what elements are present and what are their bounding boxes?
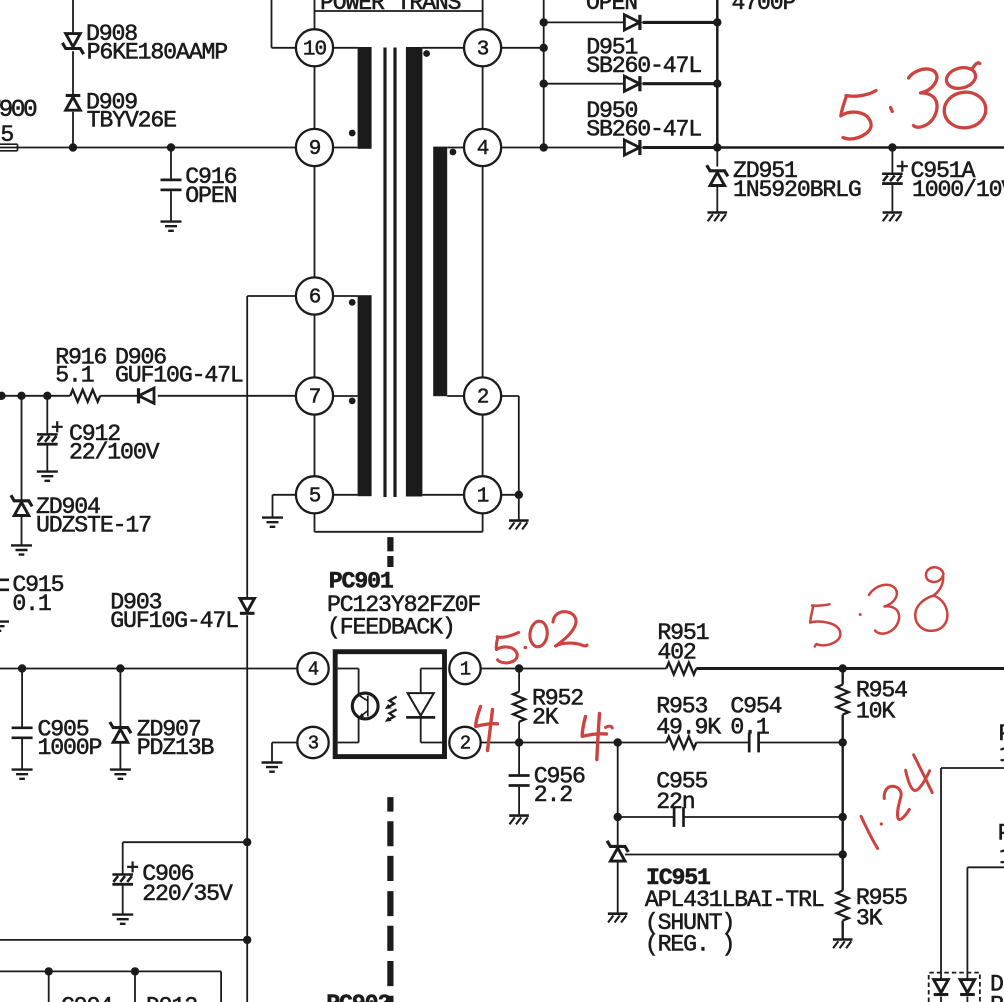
wire pin1 stub <box>501 494 519 496</box>
phase dot pin3 winding <box>423 50 430 57</box>
wire D950 row <box>544 147 625 149</box>
svg-text:220/35V: 220/35V <box>142 881 233 907</box>
wire divider branch <box>842 669 844 939</box>
diode D906 <box>139 388 155 403</box>
capacitor C906 <box>112 842 138 914</box>
label ZD904 <box>36 494 151 538</box>
wire pin6 elbow down <box>247 296 296 598</box>
label D903 <box>110 590 238 635</box>
label PC901 function <box>327 615 455 641</box>
wire IC951 ref <box>625 854 843 856</box>
connector T900 pin 5 terminal <box>0 144 18 151</box>
wire 5V output row <box>717 146 1004 149</box>
svg-text:R9: R9 <box>990 993 1004 1002</box>
phase dot pin9 winding <box>349 130 356 137</box>
phase dot pin6 winding <box>349 299 356 306</box>
node junction R953 left <box>614 738 622 746</box>
label C912 <box>69 421 160 465</box>
label D906 <box>115 344 243 388</box>
winding bar pins 3-1 <box>406 47 423 497</box>
resistor R916 <box>70 390 100 402</box>
node junction C906 <box>243 838 251 846</box>
label IC951 part <box>645 887 824 913</box>
transformer frame verticals <box>315 0 483 532</box>
svg-text:1000/10V: 1000/10V <box>912 177 1004 203</box>
svg-text:5: 5 <box>0 122 13 148</box>
svg-text:1: 1 <box>460 658 471 680</box>
ground ZD951 chassis <box>708 213 728 222</box>
wire pin2 elbow <box>501 396 519 495</box>
node junction ref/R955 <box>839 850 847 858</box>
label C915 <box>12 572 63 617</box>
bus left vertical <box>543 0 545 148</box>
svg-text:D912: D912 <box>146 994 197 1002</box>
svg-text:1: 1 <box>477 485 489 508</box>
svg-text:1: 1 <box>999 742 1004 768</box>
label PC902 clipped <box>326 991 390 1002</box>
label C955 <box>656 769 707 815</box>
wire pin3 to bus <box>501 47 544 49</box>
capacitor C954 <box>749 733 758 753</box>
svg-text:402: 402 <box>657 639 696 665</box>
ground C906 <box>112 915 133 924</box>
svg-text:5.1: 5.1 <box>55 363 94 389</box>
svg-text:5: 5 <box>309 485 321 508</box>
pin 6 <box>296 277 333 314</box>
page split dashed line <box>387 537 393 1002</box>
svg-text:22/100V: 22/100V <box>69 439 160 465</box>
pin 7 <box>296 377 333 414</box>
annotation 5.38 mid digit 3 <box>869 585 899 634</box>
ground ZD907 <box>110 770 131 779</box>
label D912 clipped <box>146 994 197 1002</box>
svg-text:1N5920BRLG: 1N5920BRLG <box>733 177 861 203</box>
wire bottom boxes top <box>0 971 221 1002</box>
LED of PC901 <box>406 693 435 717</box>
wire R916 row <box>0 395 296 397</box>
wire C954 right <box>759 742 843 744</box>
label C954 <box>730 694 781 741</box>
svg-text:9: 9 <box>309 138 321 161</box>
ground C916 <box>161 222 182 231</box>
svg-text:PDZ13B: PDZ13B <box>137 735 215 761</box>
LED anode wire <box>421 669 443 693</box>
node bus/OPEN row <box>540 18 548 26</box>
pin 10 <box>296 29 333 66</box>
node busR/D951 row <box>713 80 721 88</box>
capacitor C951A <box>882 148 908 212</box>
svg-text:2.2: 2.2 <box>534 782 573 808</box>
wire pin3 to winding <box>422 47 464 49</box>
label IC951 function <box>645 910 734 957</box>
node junction R954/C954 <box>839 738 847 746</box>
svg-text:P9: P9 <box>998 820 1004 846</box>
label PC901 <box>329 569 393 595</box>
label C904 clipped <box>61 994 112 1002</box>
label C951A <box>911 158 1004 203</box>
node junction R952 <box>515 664 523 672</box>
label POWER TRANS <box>320 0 461 16</box>
label C950 4700P <box>732 0 796 16</box>
svg-text:1: 1 <box>999 844 1004 870</box>
shunt regulator IC951 <box>607 817 628 913</box>
wire output P1 elbow <box>941 768 1004 979</box>
label D952 OPEN <box>586 0 637 16</box>
capacitor C956 <box>509 743 530 815</box>
svg-text:(REG. ): (REG. ) <box>645 931 734 957</box>
node box stub B <box>131 967 139 1002</box>
annotation 5.38 top dot <box>891 108 893 112</box>
svg-text:10: 10 <box>303 38 327 61</box>
svg-text:SB260-47L: SB260-47L <box>586 53 701 79</box>
capacitor C905 <box>12 669 33 770</box>
svg-text:3K: 3K <box>856 905 883 931</box>
diode D951 <box>624 76 640 91</box>
node junction C912 <box>43 392 51 400</box>
svg-text:4: 4 <box>477 138 489 161</box>
label R916 <box>55 344 106 388</box>
label C906 <box>142 861 233 907</box>
wire OPEN diode row <box>544 21 625 23</box>
ground C915 <box>0 622 9 631</box>
node junction C955 right <box>839 813 847 821</box>
svg-text:22n: 22n <box>656 789 694 815</box>
wire pin3 to ground <box>272 743 297 763</box>
node junction C916/row <box>167 143 175 151</box>
wire D903 down <box>246 615 248 1002</box>
wire to chassis <box>518 495 520 520</box>
ground pin5 <box>262 518 283 527</box>
svg-text:POWER TRANS: POWER TRANS <box>320 0 461 16</box>
label R952 <box>532 686 583 731</box>
svg-text:(FEEDBACK): (FEEDBACK) <box>327 615 455 641</box>
annotation 1.24 rotated <box>861 755 932 849</box>
label T900 <box>0 97 37 124</box>
diode D908 (TVS) <box>62 34 83 55</box>
svg-text:2K: 2K <box>532 704 559 730</box>
zener ZD907 <box>110 669 131 770</box>
svg-text:0.1: 0.1 <box>730 714 769 740</box>
node junction row/left edge <box>0 392 6 400</box>
wire C906 elbow <box>123 841 248 843</box>
ground C905 <box>12 770 33 779</box>
wire pin1 to winding <box>422 494 464 496</box>
svg-text:3: 3 <box>308 732 319 754</box>
label C956 <box>534 763 585 808</box>
annotation 5.38 mid digit 5 <box>810 604 840 646</box>
diode D952 <box>624 15 640 30</box>
label ZD951 <box>733 158 861 203</box>
label R951 <box>657 620 708 665</box>
label PC901 part <box>327 592 480 618</box>
phototransistor emitter wire <box>338 718 359 743</box>
label IC951 <box>646 865 710 891</box>
wire pin5 to ground <box>273 495 296 518</box>
svg-text:6: 6 <box>309 287 321 310</box>
diode in dashed box right <box>960 980 975 1002</box>
wire OPEN diode out <box>643 21 718 24</box>
node bus/D950 row <box>540 143 548 151</box>
wire pin1 row <box>481 668 667 670</box>
diode D903 <box>240 598 255 613</box>
pin 1 of PC901 <box>449 653 480 684</box>
wire into pin 10 <box>272 0 296 48</box>
phase dot pin7 winding <box>349 398 356 405</box>
pin 4 of PC901 <box>297 653 328 684</box>
resistor R955 <box>837 891 849 921</box>
ground pin1 chassis <box>509 521 529 530</box>
diode D909 <box>66 96 81 111</box>
label D9xx clipped <box>990 972 1004 1002</box>
svg-text:T900: T900 <box>0 97 37 124</box>
label ZD907 <box>137 716 215 761</box>
label R955 <box>856 885 907 932</box>
wire feedback row left <box>0 668 297 670</box>
ground C956 chassis <box>509 816 529 825</box>
wire main primary row <box>18 147 296 149</box>
wire C955 row left <box>618 816 674 818</box>
wire R953-C954 <box>696 742 749 744</box>
wire pin6 to winding <box>333 295 358 297</box>
ground pin3 PC901 <box>262 763 283 772</box>
svg-text:2: 2 <box>477 387 489 410</box>
svg-text:0.1: 0.1 <box>12 591 51 617</box>
annotation 5.38 top digit 3 <box>909 69 938 127</box>
ground IC951 chassis <box>608 914 628 923</box>
label P2 clipped <box>998 820 1004 870</box>
resistor R952 <box>513 669 525 743</box>
wire output P2 elbow <box>967 867 1004 979</box>
node junction C905 <box>18 664 26 672</box>
pin 3 <box>464 29 501 66</box>
annotation 4 right <box>582 714 612 760</box>
dashed box D950 group <box>929 973 980 1002</box>
resistor R951 <box>666 663 696 675</box>
label pin 5 of T900 <box>0 122 13 148</box>
pin 5 <box>296 476 333 513</box>
pin 2 <box>464 377 501 414</box>
label C905 <box>38 716 102 761</box>
zener ZD904 <box>11 396 32 545</box>
label D908 <box>86 21 227 66</box>
svg-text:3: 3 <box>477 38 489 61</box>
svg-text:2: 2 <box>460 732 471 754</box>
bus right vertical <box>716 0 719 148</box>
resistor R954 <box>837 685 849 715</box>
wire sense branch <box>617 743 619 818</box>
wire pin2 to winding <box>447 395 464 397</box>
svg-text:GUF10G-47L: GUF10G-47L <box>115 363 243 389</box>
ground C951A chassis <box>883 213 903 222</box>
wire pin2 row <box>481 742 667 744</box>
LED cathode wire <box>421 717 443 742</box>
svg-text:TBYV26E: TBYV26E <box>87 108 177 134</box>
label D951 <box>586 35 701 80</box>
node box stub A <box>45 967 53 1002</box>
label D950 <box>586 98 701 143</box>
resistor R953 <box>666 737 696 749</box>
transformer bottom frame <box>315 531 483 533</box>
annotation 5.38 mid dot <box>859 613 862 616</box>
wire pin4 to bus <box>501 147 544 149</box>
svg-text:SB260-47L: SB260-47L <box>586 117 701 143</box>
wire D951 row <box>544 83 625 85</box>
node junction C955 left <box>614 813 622 821</box>
phase dot pin4 winding <box>450 149 457 156</box>
pin 9 <box>296 129 333 166</box>
capacitor C912 <box>37 396 63 472</box>
node busR/D950 row <box>713 143 721 151</box>
wire primary HV vertical <box>72 0 74 148</box>
wire pin10 to winding <box>333 47 358 49</box>
optocoupler PC901 box <box>335 652 444 757</box>
wire bottom row <box>0 939 247 941</box>
svg-text:P6KE180AAMP: P6KE180AAMP <box>87 40 228 66</box>
svg-text:C904: C904 <box>61 994 112 1002</box>
zener ZD951 <box>707 148 728 212</box>
annotation 5.38 top digit 5 <box>841 91 876 139</box>
wire pin7 to winding <box>333 395 358 397</box>
ground C912 <box>37 472 58 481</box>
svg-text:7: 7 <box>309 387 321 410</box>
wire pin5 to winding <box>333 494 358 496</box>
label P1 clipped <box>999 721 1004 768</box>
svg-text:49.9K: 49.9K <box>656 714 721 740</box>
node bus/pin3 row <box>540 44 548 52</box>
svg-text:1000P: 1000P <box>38 735 102 761</box>
node junction ZD907 <box>116 664 124 672</box>
pin 2 of PC901 <box>449 727 480 758</box>
wire pin4 to winding <box>447 147 464 149</box>
svg-text:PC901: PC901 <box>329 569 393 595</box>
node junction R954 top <box>839 664 847 672</box>
annotation 5.38 top digit 8 <box>942 63 987 130</box>
label R953 <box>656 694 721 741</box>
capacitor C915 <box>0 557 9 621</box>
ground R955 chassis <box>833 940 853 949</box>
node junction pin2/R952 <box>515 738 523 746</box>
annotation 5.02 <box>496 612 587 663</box>
ground ZD904 <box>11 545 32 554</box>
wire pin9 to winding <box>333 147 358 149</box>
diode in dashed box left <box>934 980 949 1002</box>
node junction pin1/pin2 net <box>515 491 523 499</box>
light arrows <box>385 697 397 722</box>
wire D950 out <box>643 146 718 149</box>
phototransistor collector wire <box>338 669 359 695</box>
label R954 <box>856 678 907 725</box>
svg-text:OPEN: OPEN <box>185 183 236 209</box>
wire C955 row right <box>684 816 843 818</box>
pin 1 <box>464 476 501 513</box>
phototransistor Q <box>352 693 378 719</box>
pin 3 of PC901 <box>297 727 328 758</box>
wire D951 out <box>643 82 718 85</box>
pin 4 <box>464 129 501 166</box>
node junction C951A <box>888 143 896 151</box>
node junction bottom row <box>243 936 251 944</box>
label D909 <box>86 90 176 134</box>
svg-text:PC902: PC902 <box>326 991 390 1002</box>
svg-text:APL431LBAI-TRL: APL431LBAI-TRL <box>645 887 824 913</box>
winding bar pins 4-2 <box>433 147 447 397</box>
node busR/OPEN row <box>713 18 721 26</box>
wire 5.38 net thick <box>696 667 1004 670</box>
svg-text:OPEN: OPEN <box>586 0 637 16</box>
winding bar pins 10-9 <box>358 47 372 149</box>
svg-text:10K: 10K <box>856 699 896 725</box>
annotation 5.38 mid digit 8 <box>915 567 947 631</box>
transformer label box line <box>315 10 483 12</box>
svg-text:4: 4 <box>308 658 319 680</box>
node bus/D951 row <box>540 80 548 88</box>
core lines <box>385 48 395 498</box>
node junction D909/row <box>69 143 77 151</box>
svg-text:4700P: 4700P <box>732 0 796 16</box>
svg-text:GUF10G-47L: GUF10G-47L <box>110 608 238 634</box>
capacitor C916 <box>161 148 182 222</box>
capacitor C955 <box>674 807 683 827</box>
annotation 4 left <box>476 707 498 751</box>
winding bar pins 6-7-5 <box>358 295 372 496</box>
svg-text:UDZSTE-17: UDZSTE-17 <box>36 512 151 538</box>
diode D950 <box>624 140 640 155</box>
label C916 <box>185 164 236 209</box>
node junction ZD904 <box>17 392 25 400</box>
